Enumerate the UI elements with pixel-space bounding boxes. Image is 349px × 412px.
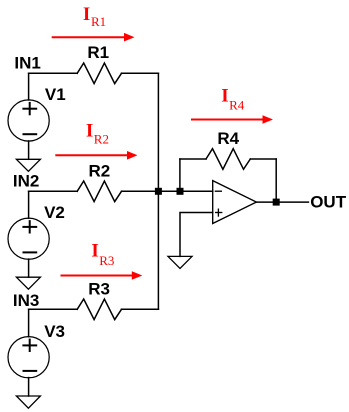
svg-text:IN2: IN2 (13, 171, 39, 190)
ground at op-amp non-inverting input (168, 256, 192, 268)
wire op-amp non-inverting input (180, 213, 213, 257)
current label I_R2 (86, 120, 109, 146)
current label I_R3 (91, 241, 114, 268)
resistor R3 (77, 299, 121, 320)
wire summing bus vertical (157, 73, 159, 309)
svg-text:V1: V1 (45, 85, 66, 104)
svg-text:I: I (83, 4, 90, 25)
wire IN2 to V2 (28, 191, 30, 218)
voltage source V2 (8, 218, 49, 259)
svg-text:V3: V3 (44, 322, 65, 341)
ground below V3 (16, 396, 40, 408)
junction node at bus (155, 188, 162, 195)
ground below V1 (16, 159, 40, 171)
wire R4 left lead (180, 158, 206, 160)
output junction node (273, 199, 280, 206)
svg-text:R1: R1 (91, 14, 106, 29)
wire V1 to ground (28, 141, 30, 159)
svg-text:R1: R1 (87, 43, 109, 62)
svg-text:IN3: IN3 (13, 291, 39, 310)
resistor R4 (206, 149, 250, 170)
svg-text:IN1: IN1 (14, 53, 40, 72)
wire IN1 to V1 (28, 73, 30, 100)
resistor R1 (77, 63, 121, 84)
wire R2 to op-amp inverting input (122, 190, 213, 192)
svg-text:R3: R3 (88, 280, 110, 299)
current arrow I_R2 (56, 151, 137, 160)
svg-text:V2: V2 (44, 203, 65, 222)
svg-text:I: I (91, 241, 98, 262)
current arrow I_R1 (53, 33, 135, 42)
op-amp U1 (213, 181, 257, 224)
resistor R2 (77, 181, 121, 202)
wire R1 to bus (122, 72, 159, 74)
wire IN3 node to R3 (29, 308, 78, 310)
svg-text:R3: R3 (99, 253, 114, 268)
wire R3 to bus (122, 308, 159, 310)
svg-text:OUT: OUT (310, 193, 347, 212)
current arrow I_R3 (62, 271, 143, 280)
wire R4 right lead (250, 158, 276, 160)
current arrow I_R4 (192, 115, 273, 124)
svg-text:I: I (221, 86, 228, 107)
current label I_R4 (221, 86, 245, 113)
svg-text:R2: R2 (89, 162, 111, 181)
voltage source V3 (8, 337, 49, 378)
ground below V2 (16, 277, 40, 289)
wire op-amp output (256, 201, 308, 203)
wire IN2 node to R2 (29, 190, 78, 192)
wire R4 down to output node (275, 159, 277, 202)
wire V3 to ground (28, 378, 30, 396)
svg-text:I: I (86, 120, 93, 141)
svg-text:R4: R4 (217, 129, 239, 148)
wire V2 to ground (28, 259, 30, 277)
wire R4 branch up from node (179, 159, 181, 191)
junction node at R4 branch (177, 188, 184, 195)
svg-text:R4: R4 (229, 97, 245, 112)
wire IN3 to V3 (28, 309, 30, 336)
svg-text:R2: R2 (94, 132, 109, 147)
current label I_R1 (83, 4, 106, 29)
voltage source V1 (8, 100, 49, 141)
wire IN1 node to R1 (29, 72, 78, 74)
